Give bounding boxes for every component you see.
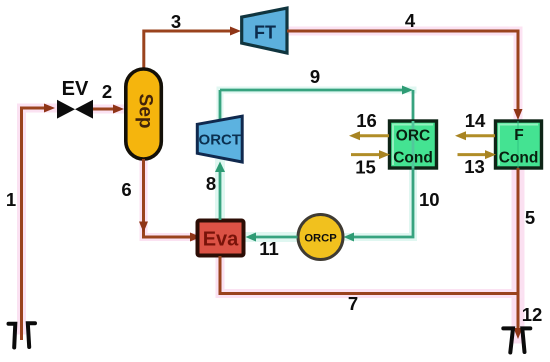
- turbine FT: [242, 8, 287, 53]
- wire 1 (production well to EV corner): [22, 104, 56, 341]
- wire 12 (junction to injection well): [514, 294, 523, 340]
- svg-text:F: F: [514, 127, 523, 144]
- svg-text:6: 6: [121, 179, 131, 200]
- condenser F Cond: [496, 121, 542, 168]
- wire ORCT top to loop: [219, 90, 222, 122]
- condenser ORC Cond: [390, 121, 437, 168]
- wire 4 (FT to F Cond): [287, 31, 523, 120]
- production well symbol: [9, 323, 36, 347]
- svg-text:11: 11: [259, 238, 279, 259]
- arrow 14 (cooling water out of F Cond): [455, 131, 495, 140]
- wire 6 (Sep bottom to Eva): [139, 159, 201, 242]
- svg-text:14: 14: [465, 110, 486, 131]
- arrow 15 (cooling water into ORC Cond): [351, 150, 390, 159]
- wire 8 (Eva top to ORCT): [215, 162, 225, 221]
- svg-text:8: 8: [206, 173, 216, 194]
- svg-text:ORCT: ORCT: [199, 132, 242, 149]
- wire 3 (Sep top to FT): [144, 27, 241, 70]
- wire 9 (loop top to ORC Cond): [220, 86, 413, 122]
- svg-text:1: 1: [6, 189, 16, 210]
- turbine ORCT: [197, 116, 242, 162]
- wire 10 (ORC Cond to ORCP): [344, 168, 414, 242]
- wire 11 (ORCP to Eva): [246, 233, 298, 242]
- svg-text:2: 2: [102, 81, 112, 102]
- wire 2 (EV to Sep): [93, 105, 124, 114]
- arrow 13 (cooling water into F Cond): [458, 150, 497, 159]
- svg-text:FT: FT: [254, 23, 276, 43]
- svg-text:Cond: Cond: [393, 150, 433, 167]
- svg-text:13: 13: [464, 156, 485, 177]
- svg-text:Cond: Cond: [499, 150, 539, 167]
- svg-text:12: 12: [522, 304, 543, 325]
- svg-text:EV: EV: [62, 78, 89, 100]
- wire 5 (F Cond down to junction): [517, 168, 520, 294]
- svg-text:ORCP: ORCP: [304, 233, 337, 245]
- evaporator Eva: [198, 221, 244, 256]
- svg-text:3: 3: [171, 11, 181, 32]
- valve EV: [57, 100, 93, 119]
- arrow 16 (cooling water out of ORC Cond): [349, 131, 389, 140]
- svg-text:7: 7: [348, 293, 358, 314]
- separator Sep: [126, 69, 162, 159]
- svg-text:4: 4: [405, 10, 416, 31]
- svg-text:10: 10: [419, 189, 440, 210]
- svg-text:9: 9: [310, 66, 320, 87]
- svg-text:15: 15: [355, 157, 376, 178]
- svg-text:16: 16: [356, 110, 377, 131]
- svg-text:ORC: ORC: [396, 128, 430, 145]
- svg-text:Eva: Eva: [203, 229, 239, 251]
- pump ORCP: [298, 215, 343, 260]
- wire halo artifacts: [22, 31, 519, 337]
- injection well symbol: [503, 328, 530, 352]
- wire 7 (Eva bottom to junction): [220, 256, 518, 294]
- svg-text:Sep: Sep: [134, 94, 155, 129]
- svg-text:5: 5: [525, 207, 535, 228]
